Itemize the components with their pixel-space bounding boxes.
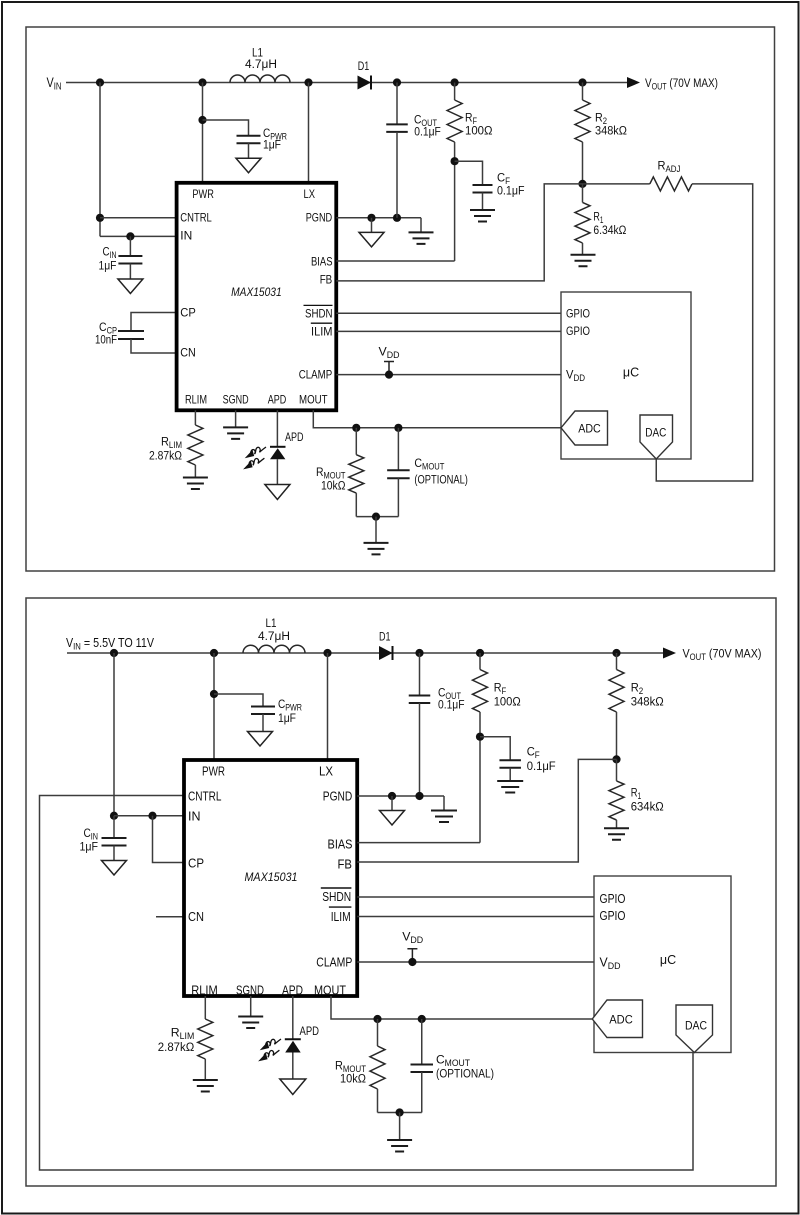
light arrows APD bottom <box>265 1039 281 1047</box>
junction PGND COUT <box>393 214 401 222</box>
wire R2 bottom lead <box>582 142 584 184</box>
wire ILIM to GPIO bottom <box>357 916 594 918</box>
svg-text:ILIM: ILIM <box>331 910 351 924</box>
wire MOUT <box>313 410 561 428</box>
wire BIAS <box>336 260 454 262</box>
wire FB link <box>336 184 582 281</box>
wire R2 bottom lead bottom <box>616 712 618 759</box>
svg-text:634kΩ: 634kΩ <box>631 800 664 814</box>
svg-text:1μF: 1μF <box>263 138 281 152</box>
svg-text:RLIM: RLIM <box>191 984 218 998</box>
wire BIAS bottom <box>357 842 480 844</box>
ground PGND (signal gnd triangle) <box>359 232 384 247</box>
junction CMOUT tap <box>394 424 402 432</box>
wire RF top lead bottom <box>479 653 481 670</box>
svg-text:CN: CN <box>180 346 196 360</box>
wire COUT bottom lead bottom <box>419 703 421 796</box>
junction PGND triangle gnd <box>367 214 375 222</box>
junction R2 branch bottom <box>612 649 620 657</box>
svg-text:GPIO: GPIO <box>566 307 590 321</box>
wire CP link bottom <box>153 816 185 863</box>
capacitor CIN <box>118 256 142 264</box>
junction RF branch <box>451 78 459 86</box>
ground MOUT bottom (earth) <box>387 1140 412 1152</box>
junction RF CF BIAS bottom <box>476 733 484 741</box>
photodiode APD cathode bar <box>270 446 286 448</box>
svg-text:FB: FB <box>320 272 333 286</box>
wire PGND earth stub <box>420 218 422 233</box>
inductor L1 <box>230 75 290 82</box>
svg-text:ADC: ADC <box>578 422 601 436</box>
svg-text:GPIO: GPIO <box>600 909 626 923</box>
junction PWR branch <box>198 78 206 86</box>
supply VDD tick <box>384 362 394 375</box>
resistor RF bottom <box>473 670 488 713</box>
svg-text:MAX15031: MAX15031 <box>245 870 298 884</box>
junction CNTRL node <box>96 214 104 222</box>
uC box bottom <box>594 876 731 1053</box>
capacitor CPWR bottom <box>251 707 275 715</box>
junction RMOUT tap <box>352 424 360 432</box>
ground APD bottom (signal gnd triangle) <box>280 1079 306 1095</box>
svg-text:(OPTIONAL): (OPTIONAL) <box>414 472 468 486</box>
wire RLIM gnd stub bottom <box>204 1059 206 1080</box>
wire APD bottom lead <box>276 459 278 484</box>
wire PWR branch <box>202 83 204 183</box>
svg-text:CLAMP: CLAMP <box>316 956 352 970</box>
junction VIN branch bottom <box>110 649 118 657</box>
resistor R1 bottom <box>609 781 624 820</box>
ground RLIM (earth) <box>183 478 208 490</box>
wire SGND gnd stub <box>235 410 237 427</box>
svg-text:MAX15031: MAX15031 <box>231 285 282 299</box>
junction CPWR tap bottom <box>210 690 218 698</box>
junction R1 R2 FB bottom <box>612 755 620 763</box>
capacitor CF bottom <box>499 760 521 768</box>
wire RLIM top lead bottom <box>204 996 206 1019</box>
wire CP <box>131 313 177 332</box>
ground CF bottom (earth) <box>497 781 523 793</box>
ground SGND (earth) <box>223 427 248 439</box>
junction MOUT gnd bottom <box>396 1108 404 1116</box>
resistor RLIM bottom <box>198 1019 213 1059</box>
svg-text:SGND: SGND <box>223 393 249 407</box>
wire CF tap <box>455 161 483 185</box>
ground R1 (earth) <box>571 255 596 267</box>
svg-text:GPIO: GPIO <box>566 324 590 338</box>
light arrows APD <box>250 447 266 455</box>
wire PWR branch bottom <box>213 653 215 760</box>
wire RMOUT bottom lead <box>355 493 357 516</box>
wire RLIM gnd stub <box>194 465 196 478</box>
wire COUT bottom lead <box>396 132 398 218</box>
supply VDD tick bottom <box>407 949 417 962</box>
svg-text:6.34kΩ: 6.34kΩ <box>593 223 626 237</box>
wire RADJ left lead <box>583 183 650 185</box>
svg-text:0.1μF: 0.1μF <box>497 184 525 198</box>
wire COUT top lead <box>396 83 398 125</box>
svg-text:0.1μF: 0.1μF <box>414 125 441 139</box>
ground PGND bottom (signal gnd triangle) <box>380 811 405 826</box>
wire RF bottom lead <box>454 142 456 261</box>
svg-text:ADC: ADC <box>609 1013 633 1027</box>
wire RMOUT top lead <box>355 428 357 455</box>
junction CP tap bottom <box>148 812 156 820</box>
svg-text:CN: CN <box>188 910 204 924</box>
diode D1 <box>358 76 372 90</box>
wire CN <box>131 339 177 353</box>
ground PGND bottom (earth) <box>431 811 457 823</box>
DAC block <box>640 415 673 459</box>
svg-text:RLIM: RLIM <box>185 393 207 407</box>
resistor R1 <box>575 202 590 243</box>
svg-text:1μF: 1μF <box>99 259 117 273</box>
wire RF bottom lead bottom <box>479 712 481 843</box>
ADC block <box>561 411 608 445</box>
svg-text:PGND: PGND <box>306 210 333 224</box>
junction RF CF BIAS <box>451 157 459 165</box>
wire CIN lead <box>129 236 131 256</box>
capacitor COUT <box>386 124 408 131</box>
ADC block bottom <box>592 1000 642 1038</box>
wire MOUT bottom <box>331 996 592 1019</box>
resistor R2 <box>575 100 590 142</box>
wire APD bottom lead bottom <box>292 1053 294 1080</box>
svg-text:2.87kΩ: 2.87kΩ <box>158 1040 195 1054</box>
ground R1 bottom (earth) <box>604 828 629 840</box>
svg-text:APD: APD <box>300 1024 320 1038</box>
wire RMOUT CMOUT join bottom <box>378 1112 422 1114</box>
svg-text:100Ω: 100Ω <box>465 124 493 138</box>
photodiode APD triangle bottom <box>285 1041 301 1053</box>
IC U1 MAX15031 body bottom <box>184 760 357 996</box>
wire CIN to ground <box>129 264 131 280</box>
svg-text:MOUT: MOUT <box>314 984 346 998</box>
junction VDD on CLAMP <box>385 371 393 379</box>
svg-text:348kΩ: 348kΩ <box>595 124 627 138</box>
svg-text:BIAS: BIAS <box>328 837 353 851</box>
wire CNTRL <box>100 217 177 219</box>
junction LX branch <box>304 78 312 86</box>
junction RF branch bottom <box>476 649 484 657</box>
svg-text:(OPTIONAL): (OPTIONAL) <box>436 1067 494 1081</box>
wire R1 top lead <box>582 184 584 203</box>
ground MOUT (earth) <box>364 543 389 555</box>
resistor RADJ <box>650 177 692 191</box>
wire RADJ to DAC loop <box>656 184 752 481</box>
wire RMOUT CMOUT join <box>356 516 398 518</box>
junction LX branch bottom <box>323 649 331 657</box>
wire VIN down bottom <box>113 653 115 816</box>
capacitor CF <box>473 185 493 193</box>
resistor RMOUT <box>349 455 364 493</box>
junction MOUT gnd <box>372 513 380 521</box>
junction R2 branch <box>578 78 586 86</box>
svg-text:DAC: DAC <box>685 1019 707 1033</box>
ground CPWR (signal gnd triangle) <box>236 158 261 173</box>
svg-text:CLAMP: CLAMP <box>299 368 333 382</box>
junction COUT branch <box>393 78 401 86</box>
svg-text:IN: IN <box>180 229 192 243</box>
arrow VOUT bottom <box>663 648 676 659</box>
svg-text:CP: CP <box>180 306 196 320</box>
wire main rail bottom <box>67 652 663 654</box>
wire R2 top lead bottom <box>616 653 618 670</box>
wire IN bottom <box>114 815 184 817</box>
svg-text:10nF: 10nF <box>95 333 117 347</box>
wire CLAMP bottom <box>357 961 594 963</box>
wire CPWR tap <box>203 120 249 136</box>
svg-text:BIAS: BIAS <box>311 254 333 268</box>
svg-text:APD: APD <box>285 430 304 444</box>
junction PGND COUT bottom <box>415 792 423 800</box>
capacitor CPWR <box>237 136 261 144</box>
wire CMOUT top lead <box>397 428 399 471</box>
wire CIN gnd stub bottom <box>113 846 115 861</box>
junction RMOUT tap bottom <box>373 1015 381 1023</box>
wire APD top lead <box>276 410 278 447</box>
wire SHDN to GPIO <box>336 312 561 314</box>
svg-text:LX: LX <box>304 187 316 201</box>
svg-text:348kΩ: 348kΩ <box>631 695 664 709</box>
diode D1 bottom <box>379 646 393 660</box>
svg-text:μC: μC <box>623 366 639 380</box>
wire PGND bottom <box>357 795 444 797</box>
wire R1 gnd stub <box>582 243 584 255</box>
resistor R2 bottom <box>609 670 624 713</box>
wire CLAMP to uC VDD <box>336 374 561 376</box>
svg-text:GPIO: GPIO <box>600 892 626 906</box>
svg-text:4.7μH: 4.7μH <box>245 57 277 71</box>
ground CPWR bottom (signal gnd triangle) <box>248 732 273 747</box>
capacitor COUT bottom <box>409 696 431 704</box>
svg-text:1μF: 1μF <box>80 840 99 854</box>
svg-text:CNTRL: CNTRL <box>180 210 212 224</box>
wire PGND gnd stub bottom <box>391 796 393 811</box>
wire RLIM top lead <box>194 410 196 425</box>
svg-text:PGND: PGND <box>323 790 353 804</box>
svg-text:L1: L1 <box>266 616 277 630</box>
junction CMOUT tap bottom <box>418 1015 426 1023</box>
wire CF gnd stub <box>482 193 484 211</box>
wire PGND gnd stub <box>371 218 373 233</box>
wire CMOUT bottom lead bottom <box>421 1072 423 1113</box>
junction CIN tap <box>126 232 134 240</box>
svg-text:D1: D1 <box>358 59 370 73</box>
junction IN CIN bottom <box>110 812 118 820</box>
resistor RF <box>447 100 462 142</box>
DAC block bottom <box>676 1005 713 1053</box>
svg-text:100Ω: 100Ω <box>494 695 521 709</box>
svg-text:μC: μC <box>660 953 676 967</box>
resistor RMOUT bottom <box>370 1046 385 1089</box>
wire VIN down branch <box>99 83 101 237</box>
svg-text:0.1μF: 0.1μF <box>527 759 556 773</box>
wire RMOUT bottom lead bottom <box>377 1089 379 1113</box>
junction PGND triangle bottom <box>388 792 396 800</box>
ground CIN bottom (signal gnd triangle) <box>102 861 127 876</box>
svg-text:PWR: PWR <box>192 187 214 201</box>
ground PGND (earth) <box>409 232 434 244</box>
wire CN stub bottom <box>156 916 184 918</box>
svg-text:LX: LX <box>319 765 334 779</box>
wire R1 top lead bottom <box>616 759 618 781</box>
ground SGND bottom (earth) <box>238 1017 263 1029</box>
svg-text:10kΩ: 10kΩ <box>321 479 346 493</box>
wire ILIM to GPIO <box>336 330 561 332</box>
svg-text:MOUT: MOUT <box>299 393 328 407</box>
wire CPWR gnd stub bottom <box>262 714 264 732</box>
wire RF top lead <box>454 83 456 101</box>
svg-text:D1: D1 <box>379 630 391 644</box>
wire CPWR to ground <box>248 143 250 158</box>
capacitor CMOUT <box>387 470 410 478</box>
photodiode APD cathode bar bottom <box>285 1038 301 1040</box>
svg-text:1μF: 1μF <box>278 711 296 725</box>
photodiode APD triangle <box>270 448 285 459</box>
capacitor CCP <box>118 331 144 339</box>
svg-text:0.1μF: 0.1μF <box>438 698 465 712</box>
ground CIN (signal gnd triangle) <box>118 279 143 294</box>
wire SGND gnd stub bottom <box>250 996 252 1017</box>
wire PGND earth stub bottom <box>443 796 445 811</box>
svg-text:SGND: SGND <box>236 984 264 998</box>
svg-text:CNTRL: CNTRL <box>188 790 222 804</box>
svg-text:ILIM: ILIM <box>311 325 333 339</box>
ground RLIM bottom (earth) <box>193 1080 218 1092</box>
wire IN <box>100 235 177 237</box>
svg-text:FB: FB <box>338 857 353 871</box>
svg-text:PWR: PWR <box>202 765 225 779</box>
wire LX branch <box>308 83 310 183</box>
ground CF (earth) <box>470 210 495 222</box>
wire CMOUT top lead bottom <box>421 1019 423 1065</box>
wire VIN to VOUT main rail <box>66 82 627 84</box>
wire MOUT gnd stub bottom <box>399 1113 401 1141</box>
frame of bottom schematic <box>26 598 776 1186</box>
svg-text:APD: APD <box>268 393 287 407</box>
svg-text:IN: IN <box>188 810 201 824</box>
wire FB link bottom <box>357 759 616 862</box>
svg-text:2.87kΩ: 2.87kΩ <box>149 449 182 463</box>
junction VIN branch <box>96 78 104 86</box>
svg-text:APD: APD <box>282 984 303 998</box>
svg-text:SHDN: SHDN <box>322 890 351 904</box>
wire MOUT gnd stub <box>375 517 377 543</box>
wire CIN lead bottom <box>113 816 115 838</box>
wire CNTRL feedback loop <box>40 796 694 1171</box>
junction VDD on CLAMP bottom <box>408 958 416 966</box>
wire PGND <box>336 217 421 219</box>
junction PWR branch bottom <box>210 649 218 657</box>
wire SHDN to GPIO bottom <box>357 896 594 898</box>
junction COUT branch bottom <box>415 649 423 657</box>
junction R1 R2 RADJ FB <box>578 180 586 188</box>
wire LX branch bottom <box>327 653 329 760</box>
wire CF gnd stub bottom <box>509 768 511 781</box>
capacitor CMOUT bottom <box>411 1065 434 1073</box>
capacitor CIN bottom <box>102 838 127 846</box>
IC U1 MAX15031 body <box>177 183 337 410</box>
ground APD (signal gnd triangle) <box>265 485 290 500</box>
svg-text:SHDN: SHDN <box>305 307 333 321</box>
frame of top schematic <box>26 27 775 571</box>
wire COUT top lead bottom <box>419 653 421 696</box>
wire CF tap bottom <box>480 737 510 761</box>
uC box <box>561 292 691 459</box>
svg-text:DAC: DAC <box>645 426 666 440</box>
svg-text:10kΩ: 10kΩ <box>340 1072 366 1086</box>
junction CPWR tap <box>198 116 206 124</box>
wire R2 top lead <box>582 83 584 101</box>
wire APD top lead bottom <box>292 996 294 1039</box>
wire R1 gnd stub bottom <box>616 820 618 828</box>
wire CPWR tap bottom <box>214 694 263 707</box>
inductor L1 bottom <box>243 645 305 653</box>
svg-text:4.7μH: 4.7μH <box>258 629 290 643</box>
wire RMOUT top lead bottom <box>377 1019 379 1046</box>
arrow VOUT <box>627 77 640 88</box>
resistor RLIM <box>188 425 203 465</box>
svg-text:CP: CP <box>188 857 204 871</box>
wire CMOUT bottom lead <box>397 478 399 516</box>
